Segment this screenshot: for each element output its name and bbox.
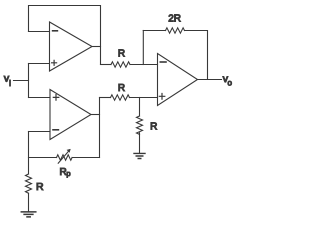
wire U2 output vertical — [99, 98, 101, 158]
resistor R row1 — [111, 62, 130, 67]
wire Rp row left — [29, 157, 57, 159]
wire U1 non-inverting input — [29, 63, 50, 65]
wire row1 left — [101, 64, 112, 66]
ground right — [134, 153, 145, 158]
resistor R right vertical — [137, 116, 143, 134]
resistor R row2 — [111, 95, 130, 100]
op-amp U2 — [50, 90, 91, 140]
wire left column down — [28, 132, 30, 175]
svg-text:p: p — [66, 169, 70, 178]
svg-text:R: R — [150, 122, 157, 133]
wire U2 non-inverting input — [29, 97, 51, 99]
wire 2R branch vertical — [142, 31, 144, 65]
U3 minus pin label — [160, 61, 166, 63]
U3 plus pin label — [159, 94, 165, 100]
wire R branch vertical — [139, 98, 141, 117]
svg-text:i: i — [9, 79, 11, 88]
svg-text:R: R — [36, 181, 44, 193]
op-amp U1 — [50, 22, 93, 71]
U2 plus pin label — [53, 95, 59, 101]
wire U2 output — [91, 114, 100, 116]
resistor Rp — [57, 155, 73, 160]
svg-text:2R: 2R — [168, 14, 181, 25]
wire vi branch vertical — [28, 64, 30, 98]
wire U1 output — [92, 46, 101, 48]
svg-text:R: R — [118, 49, 125, 60]
svg-text:R: R — [118, 83, 125, 94]
wire row2 right — [130, 97, 158, 99]
wire to ground right — [139, 133, 141, 153]
wire U3 output — [198, 79, 222, 81]
wire U1 inverting input — [29, 31, 50, 33]
wire Rp row right — [72, 157, 99, 159]
U1 minus pin label — [53, 30, 58, 32]
op-amp U3 — [158, 54, 198, 106]
wire row1 right — [130, 64, 158, 66]
U2 minus pin label — [53, 129, 58, 131]
resistor R left vertical — [26, 174, 32, 193]
ground left — [21, 212, 36, 217]
wire 2R row right — [185, 31, 208, 80]
wire to ground left — [28, 193, 30, 211]
wire 2R row left — [143, 30, 165, 32]
U1 plus pin label — [52, 60, 57, 65]
Rp arrow — [58, 150, 70, 163]
wire U2 inverting input — [29, 131, 51, 133]
resistor 2R — [166, 28, 185, 33]
wire feedback loop op-amp U1 top — [29, 6, 101, 65]
wire vi stub — [14, 80, 29, 82]
svg-text:o: o — [228, 78, 233, 87]
wire row2 left — [100, 97, 111, 99]
